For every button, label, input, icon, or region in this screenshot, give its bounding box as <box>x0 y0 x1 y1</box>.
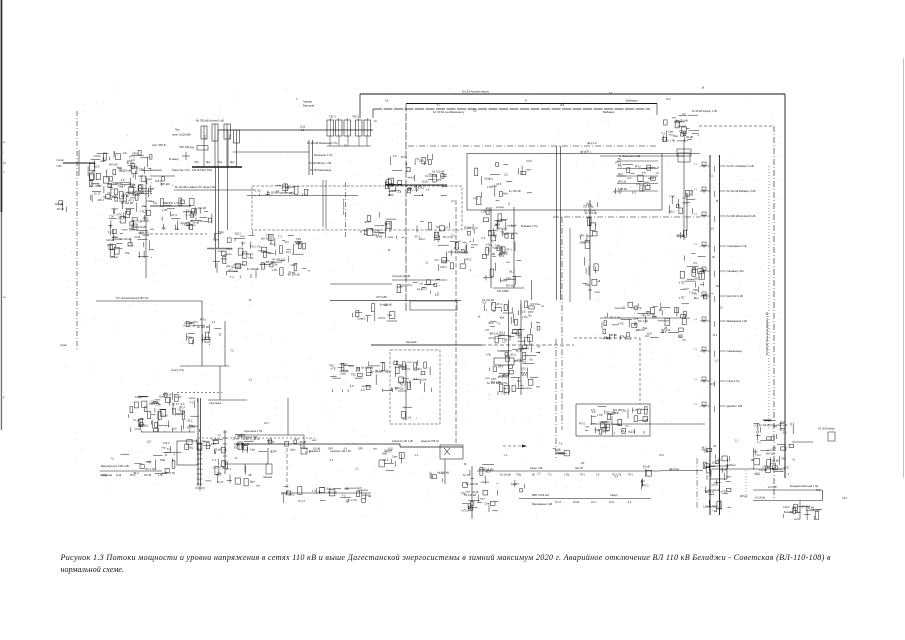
svg-text:АТ-1: АТ-1 <box>580 474 586 477</box>
svg-text:Т-1: Т-1 <box>278 235 283 239</box>
svg-text:-1,6: -1,6 <box>343 448 348 451</box>
Sulak bus <box>63 162 95 164</box>
svg-text:-1,6: -1,6 <box>161 226 166 230</box>
svg-text:Вакуумресурс 6 кВ 1 кВт: Вакуумресурс 6 кВ 1 кВт <box>101 465 130 468</box>
svg-text:35 кВ: 35 кВ <box>686 135 693 139</box>
svg-text:Пр: Пр <box>713 444 717 448</box>
svg-text:Т-2: Т-2 <box>489 177 494 181</box>
svg-text:Хасавюрт 110: Хасавюрт 110 <box>727 269 744 273</box>
svg-text:6,3: 6,3 <box>482 300 486 304</box>
svg-text:АТ-1: АТ-1 <box>473 197 479 201</box>
c509 <box>511 480 526 492</box>
svg-text:ТЭЦ: ТЭЦ <box>418 185 424 189</box>
svg-text:к ПС: к ПС <box>388 193 394 197</box>
svg-text:110 кВ ГЭС+ТЭЦ: 110 кВ ГЭС+ТЭЦ <box>192 169 212 172</box>
svg-text:10,5: 10,5 <box>180 410 186 414</box>
svg-text:ПС 1 Пр: ПС 1 Пр <box>610 316 621 320</box>
svg-text:ПС 30-Ф Авчал: ПС 30-Ф Авчал <box>818 428 835 431</box>
svg-text:1 Пр: 1 Пр <box>434 237 440 241</box>
svg-text:115,2: 115,2 <box>163 441 170 445</box>
svg-text:Тр 1Т: Тр 1Т <box>298 499 305 503</box>
svg-text:АТ-1: АТ-1 <box>407 283 413 287</box>
dash vertical x345 <box>345 182 347 238</box>
svg-text:6л 110 кВ: 6л 110 кВ <box>432 170 444 174</box>
svg-text:РП-2: РП-2 <box>227 247 234 251</box>
svg-text:Степной 110 кВ: Степной 110 кВ <box>392 275 410 278</box>
svg-text:2x16: 2x16 <box>422 180 428 184</box>
svg-text:Т-2: Т-2 <box>517 379 522 383</box>
svg-text:10,5: 10,5 <box>560 105 565 107</box>
svg-text:Пр: Пр <box>618 163 622 167</box>
svg-text:Юж: Юж <box>189 424 194 428</box>
svg-text:ВЛ-110: ВЛ-110 <box>328 490 337 494</box>
svg-text:ТЭЦ: ТЭЦ <box>145 460 151 464</box>
svg-text:35 кВ: 35 кВ <box>720 468 727 472</box>
svg-text:6,3: 6,3 <box>362 316 366 320</box>
svg-text:115,2: 115,2 <box>234 232 241 236</box>
svg-text:Касп flot 1 кВ: Касп flot 1 кВ <box>727 294 743 298</box>
svg-text:6л 330 кВ Артём-Я 3 кВ: 6л 330 кВ Артём-Я 3 кВ <box>727 214 756 218</box>
svg-text:АТ-1: АТ-1 <box>290 192 296 196</box>
Levashi chain <box>508 300 510 395</box>
svg-text:10,5: 10,5 <box>213 466 219 470</box>
svg-text:РП-2: РП-2 <box>130 474 136 477</box>
svg-text:110 кВ: 110 кВ <box>313 448 321 451</box>
svg-text:ГЭС-1: ГЭС-1 <box>329 116 337 119</box>
svg-text:1 Пр: 1 Пр <box>235 434 241 438</box>
kasumkent <box>461 464 498 512</box>
vert pair down <box>215 167 217 268</box>
bottom chain BB <box>281 492 371 494</box>
svg-text:36,2: 36,2 <box>270 242 276 246</box>
buynaksk chain <box>490 207 492 288</box>
svg-text:110 кВ: 110 кВ <box>144 474 152 477</box>
svg-text:6л 110 кВ: 6л 110 кВ <box>361 366 373 370</box>
svg-text:10,5: 10,5 <box>289 492 295 496</box>
svg-text:ВЛ-110: ВЛ-110 <box>163 393 172 397</box>
svg-text:2x16: 2x16 <box>162 414 168 418</box>
svg-text:ПС 1 Пр: ПС 1 Пр <box>443 235 454 239</box>
big dash boundary rect <box>252 186 462 230</box>
svg-text:110 кВ: 110 кВ <box>647 313 655 317</box>
svg-text:отп.: отп. <box>485 377 490 380</box>
svg-text:115,2: 115,2 <box>378 231 385 235</box>
svg-text:Т-1: Т-1 <box>212 458 217 462</box>
svg-text:ГЭС: ГЭС <box>248 256 253 260</box>
svg-text:ОРУ: ОРУ <box>358 448 363 451</box>
svg-text:10,5: 10,5 <box>842 498 847 500</box>
svg-text:ОРУ: ОРУ <box>397 285 403 289</box>
SE rect <box>576 404 650 436</box>
svg-text:2x16: 2x16 <box>473 490 479 494</box>
svg-text:115,2: 115,2 <box>510 353 517 357</box>
svg-text:Сулак: Сулак <box>57 159 65 162</box>
svg-text:10,5: 10,5 <box>609 501 614 504</box>
svg-text:110 кВ: 110 кВ <box>121 194 129 198</box>
svg-text:Юж: Юж <box>503 192 508 196</box>
svg-text:36,2: 36,2 <box>509 270 515 274</box>
svg-text:110 кВ: 110 кВ <box>198 206 206 210</box>
svg-text:Пр: Пр <box>718 458 722 462</box>
midleft <box>161 198 212 230</box>
svg-text:РП-2 Пр: РП-2 Пр <box>498 382 508 385</box>
svg-text:6л 110 кВ: 6л 110 кВ <box>283 185 295 189</box>
svg-text:2x10: 2x10 <box>300 126 306 129</box>
svg-text:Щит: Щит <box>326 487 332 491</box>
svg-text:Семендер: Семендер <box>150 169 163 172</box>
svg-text:6л ЧГЭС на Махачкалу: 6л ЧГЭС на Махачкалу <box>433 110 465 114</box>
svg-text:Тр 1Т: Тр 1Т <box>94 192 101 196</box>
svg-text:к ПС: к ПС <box>784 466 790 470</box>
svg-text:Тр 1Т: Тр 1Т <box>175 395 182 399</box>
svg-text:Тр 1Т: Тр 1Т <box>686 192 693 196</box>
izberbash <box>129 392 200 432</box>
tarki comps <box>186 208 208 229</box>
wire chain to Derbent bus <box>661 470 703 472</box>
svg-text:Авдотек 765 x8: Авдотек 765 x8 <box>421 440 439 443</box>
svg-text:-1,6: -1,6 <box>640 479 645 483</box>
svg-text:10,5: 10,5 <box>587 234 593 238</box>
svg-text:отп.: отп. <box>407 361 412 364</box>
svg-text:к ПС: к ПС <box>633 408 639 412</box>
svg-text:ПС 1 Пр: ПС 1 Пр <box>665 138 676 142</box>
svg-text:АТ-1: АТ-1 <box>496 302 502 306</box>
svg-text:10,5: 10,5 <box>94 165 100 169</box>
svg-text:отп.: отп. <box>370 228 375 231</box>
svg-text:п/ст: п/ст <box>518 335 524 339</box>
encl content <box>473 161 532 205</box>
svg-text:Ханмагомед: Ханмагомед <box>727 349 742 353</box>
svg-text:ГЭС: ГЭС <box>198 219 203 223</box>
Kasumkent chain <box>471 466 473 519</box>
svg-text:Буйнакск 1 Пр: Буйнакск 1 Пр <box>521 225 538 228</box>
svg-text:-1,6: -1,6 <box>782 431 787 435</box>
svg-text:-1,6: -1,6 <box>360 388 365 392</box>
svg-text:кВ: кВ <box>659 308 662 312</box>
svg-text:2,5: 2,5 <box>772 446 776 450</box>
svg-text:Т-2: Т-2 <box>764 465 769 469</box>
svg-text:к ПС: к ПС <box>158 474 163 477</box>
svg-text:Т-1: Т-1 <box>294 242 299 246</box>
svg-text:АТ-1: АТ-1 <box>628 474 634 477</box>
svg-text:2,5: 2,5 <box>631 430 635 434</box>
left chain1 <box>155 177 173 187</box>
gray bus y248 <box>207 248 232 250</box>
svg-text:2,5: 2,5 <box>426 187 430 191</box>
c378 <box>379 448 404 470</box>
svg-text:Тр 1Т: Тр 1Т <box>516 349 523 353</box>
svg-text:п/ст: п/ст <box>284 240 290 244</box>
dash-dot y146 <box>408 145 657 147</box>
svg-text:ПС 1 Пр: ПС 1 Пр <box>145 467 156 471</box>
svg-text:РП-2: РП-2 <box>112 255 119 259</box>
svg-text:Пр: Пр <box>529 357 533 361</box>
svg-text:кВ: кВ <box>249 473 252 477</box>
svg-text:РП-2: РП-2 <box>491 234 498 238</box>
c350 <box>352 303 397 322</box>
svg-text:ГЭС: ГЭС <box>296 237 301 241</box>
svg-text:Аэропорт ОК 1 кВ: Аэропорт ОК 1 кВ <box>392 440 413 443</box>
c586 <box>585 420 620 436</box>
svg-text:ОРУ: ОРУ <box>506 277 512 281</box>
svg-text:ОРУ: ОРУ <box>528 310 534 314</box>
svg-text:Сев: Сев <box>217 471 222 475</box>
svg-text:ОРУ: ОРУ <box>272 450 278 454</box>
svg-text:2,5: 2,5 <box>122 184 126 188</box>
svg-text:АТ-1: АТ-1 <box>591 501 597 504</box>
svg-text:ВЛ-110: ВЛ-110 <box>801 504 810 508</box>
svg-text:ПС 1 Пр: ПС 1 Пр <box>632 306 643 310</box>
chain x582-599 <box>589 200 591 300</box>
svg-text:Щит: Щит <box>694 296 700 300</box>
svg-text:Белиджи ВП: Белиджи ВП <box>806 509 820 512</box>
svg-text:РП-2: РП-2 <box>149 402 156 406</box>
svg-text:Т-2: Т-2 <box>201 439 206 443</box>
svg-text:отп.: отп. <box>627 177 632 180</box>
c669 <box>668 190 695 214</box>
svg-text:Тр 1Т: Тр 1Т <box>375 369 382 373</box>
svg-text:Т-2: Т-2 <box>684 202 689 206</box>
ne rows <box>613 160 659 194</box>
svg-text:ОРУ: ОРУ <box>281 492 287 496</box>
svg-text:б. Новохушет 1 кВ: б. Новохушет 1 кВ <box>619 155 641 158</box>
svg-text:36,2: 36,2 <box>349 364 355 368</box>
svg-text:6л 110 кВ: 6л 110 кВ <box>466 482 478 486</box>
svg-text:Т-2: Т-2 <box>189 401 194 405</box>
gotsatl <box>329 362 374 393</box>
svg-text:6л 110 кВ: 6л 110 кВ <box>120 237 132 241</box>
svg-text:Аэропорт ОК с 28: Аэропорт ОК с 28 <box>330 450 351 453</box>
svg-text:6л 110 кВ крут 1 кВ: 6л 110 кВ крут 1 кВ <box>309 162 331 165</box>
svg-text:2,5: 2,5 <box>504 172 508 176</box>
chain 590 <box>579 202 600 300</box>
svg-text:6л Юг-4 Бабаюрт 1 кВ: 6л Юг-4 Бабаюрт 1 кВ <box>727 164 754 168</box>
svg-text:10,5: 10,5 <box>496 182 502 186</box>
svg-text:ОРУ: ОРУ <box>328 448 333 451</box>
svg-text:АТ-1: АТ-1 <box>127 159 133 163</box>
svg-text:Самур: Самур <box>610 494 618 497</box>
svg-text:Пр: Пр <box>492 309 496 313</box>
svg-text:Т-2: Т-2 <box>757 441 762 445</box>
svg-text:6л 110 кВ: 6л 110 кВ <box>755 498 766 500</box>
svg-text:115,2: 115,2 <box>711 482 718 486</box>
svg-text:ТЭЦ: ТЭЦ <box>220 466 226 470</box>
svg-text:36,2: 36,2 <box>580 240 586 244</box>
svg-text:2x16: 2x16 <box>602 420 608 424</box>
svg-text:ВЛ-110: ВЛ-110 <box>139 424 148 428</box>
svg-text:ГЭС: ГЭС <box>194 161 199 164</box>
svg-text:2,5: 2,5 <box>485 328 489 332</box>
svg-text:Юж: Юж <box>118 166 123 170</box>
svg-text:к ПС: к ПС <box>272 268 278 272</box>
svg-text:ГЭС: ГЭС <box>585 283 590 287</box>
svg-text:к ПС: к ПС <box>721 490 727 494</box>
svg-text:Бавтугай: Бавтугай <box>303 104 315 108</box>
svg-text:п/ст: п/ст <box>138 174 144 178</box>
c415 <box>415 222 479 242</box>
330kV corridor label line <box>768 166 770 430</box>
kaspiysk <box>88 150 152 202</box>
svg-text:6,3: 6,3 <box>632 191 636 195</box>
svg-text:Чирюрт: Чирюрт <box>303 100 313 104</box>
Achisu chains <box>96 300 202 302</box>
svg-text:6л 33 кВ Чирюрт 1 кВ: 6л 33 кВ Чирюрт 1 кВ <box>692 110 717 113</box>
svg-text:АТ-1: АТ-1 <box>129 155 135 159</box>
svg-text:ГЭС-2: ГЭС-2 <box>352 116 360 119</box>
svg-text:АТ-1: АТ-1 <box>417 287 423 291</box>
svg-text:2x16: 2x16 <box>340 371 346 375</box>
svg-text:Юж: Юж <box>673 134 678 138</box>
svg-text:Сулак: Сулак <box>60 344 68 347</box>
svg-text:110 кВ: 110 кВ <box>703 505 711 509</box>
gray feeder y206 <box>150 205 191 207</box>
svg-text:6л 330 Махачкала: 6л 330 Махачкала <box>310 169 332 172</box>
svg-text:Сев: Сев <box>387 313 392 317</box>
chain x200 ticks <box>197 443 203 445</box>
svg-text:Сев: Сев <box>718 507 723 511</box>
svg-text:10,5: 10,5 <box>171 427 177 431</box>
svg-text:Сев-Кавказ 1 Пр: Сев-Кавказ 1 Пр <box>727 244 747 248</box>
svg-text:Щит: Щит <box>214 238 220 242</box>
svg-text:10,5: 10,5 <box>357 486 363 490</box>
dash-dot corridor <box>553 216 700 218</box>
svg-text:дБ-дОП 1: дБ-дОП 1 <box>580 151 592 154</box>
svg-text:пункт 2х125 кВА: пункт 2х125 кВА <box>172 134 191 137</box>
svg-text:1 Пр: 1 Пр <box>481 210 487 214</box>
svg-text:МВУ ОЛ-В 42а: МВУ ОЛ-В 42а <box>532 494 549 497</box>
svg-text:2,5: 2,5 <box>636 182 640 186</box>
svg-text:Щит: Щит <box>385 221 391 225</box>
svg-text:Юж: Юж <box>383 303 388 307</box>
330kV verts SE <box>308 140 310 175</box>
chain steps <box>236 443 311 445</box>
svg-text:36,2: 36,2 <box>694 276 700 280</box>
svg-text:ПС 1 Пр: ПС 1 Пр <box>170 201 181 205</box>
svg-text:АТ-1: АТ-1 <box>226 467 232 471</box>
svg-text:Хив 35: Хив 35 <box>575 467 583 470</box>
transf <box>401 407 417 421</box>
svg-text:2x16: 2x16 <box>678 234 684 238</box>
svg-text:6л 110 кВ: 6л 110 кВ <box>500 474 511 477</box>
svg-text:АТ2: АТ2 <box>229 134 232 139</box>
svg-text:отп.: отп. <box>428 173 433 176</box>
row y280 <box>397 279 440 296</box>
svg-text:ГЭС: ГЭС <box>670 194 675 198</box>
svg-text:Пир: Пир <box>175 129 180 132</box>
svg-text:36,2: 36,2 <box>661 330 667 334</box>
svg-text:330 кВ: 330 кВ <box>609 334 617 337</box>
wire y152 left <box>233 151 309 153</box>
wire y190 <box>174 189 255 191</box>
sovetskaya <box>751 420 794 476</box>
svg-text:ОРУ: ОРУ <box>491 377 497 381</box>
svg-text:115,2: 115,2 <box>440 265 447 269</box>
svg-text:36,2: 36,2 <box>701 446 707 450</box>
vert x570 <box>569 228 571 302</box>
svg-text:115,2: 115,2 <box>135 395 142 399</box>
svg-text:ВЛ-110: ВЛ-110 <box>140 230 149 234</box>
svg-text:к ПС: к ПС <box>679 295 685 299</box>
levashi chain <box>485 301 540 395</box>
svg-text:п/ст: п/ст <box>434 258 440 262</box>
svg-text:Магарамкент 1кВ: Магарамкент 1кВ <box>532 503 552 506</box>
svg-text:ОРУ-330 руд: ОРУ-330 руд <box>179 146 194 149</box>
svg-text:ОРУ: ОРУ <box>579 234 585 238</box>
svg-text:Пр: Пр <box>528 314 532 318</box>
svg-text:2,5: 2,5 <box>693 261 697 265</box>
svg-text:к ПС: к ПС <box>618 321 624 325</box>
c225 <box>211 434 255 454</box>
svg-text:п/ст: п/ст <box>417 367 423 371</box>
enclosure rows <box>617 160 658 162</box>
svg-text:2,5: 2,5 <box>393 154 397 158</box>
svg-text:-1,6: -1,6 <box>275 189 280 193</box>
boxrow247 <box>255 183 309 196</box>
c643 <box>640 464 651 489</box>
svg-text:6,3: 6,3 <box>411 175 415 179</box>
svg-text:п/ст: п/ст <box>642 171 648 175</box>
svg-text:ТЭЦ: ТЭЦ <box>218 230 224 234</box>
signal <box>430 470 449 482</box>
svg-text:ПС 1 Пр: ПС 1 Пр <box>251 245 262 249</box>
svg-text:10,5: 10,5 <box>647 332 653 336</box>
svg-text:Пр: Пр <box>558 448 562 452</box>
svg-text:ПС 1 Пр: ПС 1 Пр <box>457 251 468 255</box>
svg-text:ГЭС: ГЭС <box>109 215 114 219</box>
svg-text:кВ: кВ <box>532 474 535 477</box>
wire 330kV line A <box>360 93 785 95</box>
svg-text:Юж: Юж <box>125 251 130 255</box>
svg-text:6л 110 кВ: 6л 110 кВ <box>708 488 720 492</box>
svg-text:ВЛ-110: ВЛ-110 <box>506 284 515 288</box>
svg-text:Мамедкала 1 кВ: Мамедкала 1 кВ <box>727 319 747 323</box>
svg-text:6л 110 кВ: 6л 110 кВ <box>437 470 449 474</box>
svg-text:РП-1 Пр: РП-1 Пр <box>498 376 508 379</box>
svg-text:Курах 1 кВ: Курах 1 кВ <box>530 467 543 470</box>
svg-text:РП-2: РП-2 <box>465 258 472 262</box>
svg-text:Юж: Юж <box>129 227 134 231</box>
svg-text:2,5: 2,5 <box>444 225 448 229</box>
svg-text:6л 330 кВ Махачкала 1 Пр: 6л 330 кВ Махачкала 1 Пр <box>307 142 338 145</box>
svg-text:Тр 1Т: Тр 1Т <box>172 402 179 406</box>
svg-text:РП-2: РП-2 <box>227 264 234 268</box>
svg-text:2,5: 2,5 <box>522 309 526 313</box>
svg-text:АТ-1: АТ-1 <box>454 246 460 250</box>
svg-text:2,5: 2,5 <box>442 260 446 264</box>
svg-text:к ПС: к ПС <box>597 413 603 417</box>
svg-text:6л 110 кВ: 6л 110 кВ <box>509 189 521 193</box>
svg-text:2,5: 2,5 <box>435 231 439 235</box>
svg-text:115,2: 115,2 <box>783 505 790 509</box>
svg-text:п/ст: п/ст <box>678 333 684 337</box>
svg-text:Бабаюрт: Бабаюрт <box>626 99 639 103</box>
wire line B <box>406 103 657 105</box>
se rect content <box>579 406 648 434</box>
svg-text:ВЛ 330 кВ Махачкала-Дербент 1: ВЛ 330 кВ Махачкала-Дербент 1 кВ <box>765 312 769 355</box>
svg-text:2,5: 2,5 <box>618 423 622 427</box>
c674 <box>676 230 686 239</box>
svg-text:10,5: 10,5 <box>383 458 389 462</box>
svg-text:2x16: 2x16 <box>134 235 140 239</box>
svg-text:35 кВ: 35 кВ <box>300 440 307 444</box>
svg-text:36,2: 36,2 <box>488 321 494 325</box>
svg-text:отп.: отп. <box>757 454 762 457</box>
svg-text:12,3: 12,3 <box>713 335 718 337</box>
svg-text:ВЛ-110: ВЛ-110 <box>241 442 250 446</box>
enclosure rect <box>467 154 662 211</box>
manaskent <box>162 439 223 453</box>
svg-text:к ПС: к ПС <box>777 468 783 472</box>
